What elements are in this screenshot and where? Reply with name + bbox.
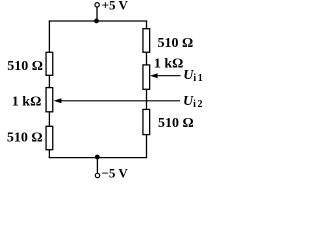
wire +5V stub — [96, 7, 98, 21]
wire bottom rail — [49, 157, 148, 159]
resistor 1 kohm left middle — [46, 88, 53, 112]
svg-text:510 Ω: 510 Ω — [158, 116, 194, 131]
node junction bottom — [95, 155, 100, 160]
input arrow Ui2 — [54, 98, 180, 103]
svg-text:1 kΩ: 1 kΩ — [12, 95, 42, 110]
svg-text:1 kΩ: 1 kΩ — [154, 56, 184, 71]
resistor 510 ohm right bottom — [143, 109, 150, 134]
resistor 510 ohm right top — [143, 29, 150, 53]
svg-text:510 Ω: 510 Ω — [7, 131, 43, 146]
svg-text:+5 V: +5 V — [102, 0, 129, 12]
node junction top — [94, 19, 99, 24]
terminal +5V — [95, 3, 99, 7]
input arrow Ui1 — [150, 73, 181, 78]
wire right branch — [146, 21, 148, 158]
resistor 1 kohm right middle — [143, 65, 150, 89]
wire left branch — [48, 21, 50, 158]
terminal -5V — [95, 173, 99, 177]
svg-text:510 Ω: 510 Ω — [158, 36, 194, 51]
resistor 510 ohm left bottom — [46, 126, 53, 149]
svg-text:510 Ω: 510 Ω — [7, 59, 43, 74]
wire top rail — [49, 20, 148, 22]
svg-text:−5 V: −5 V — [102, 166, 129, 181]
wire -5V stub — [96, 158, 98, 174]
resistor 510 ohm left top — [46, 52, 53, 75]
